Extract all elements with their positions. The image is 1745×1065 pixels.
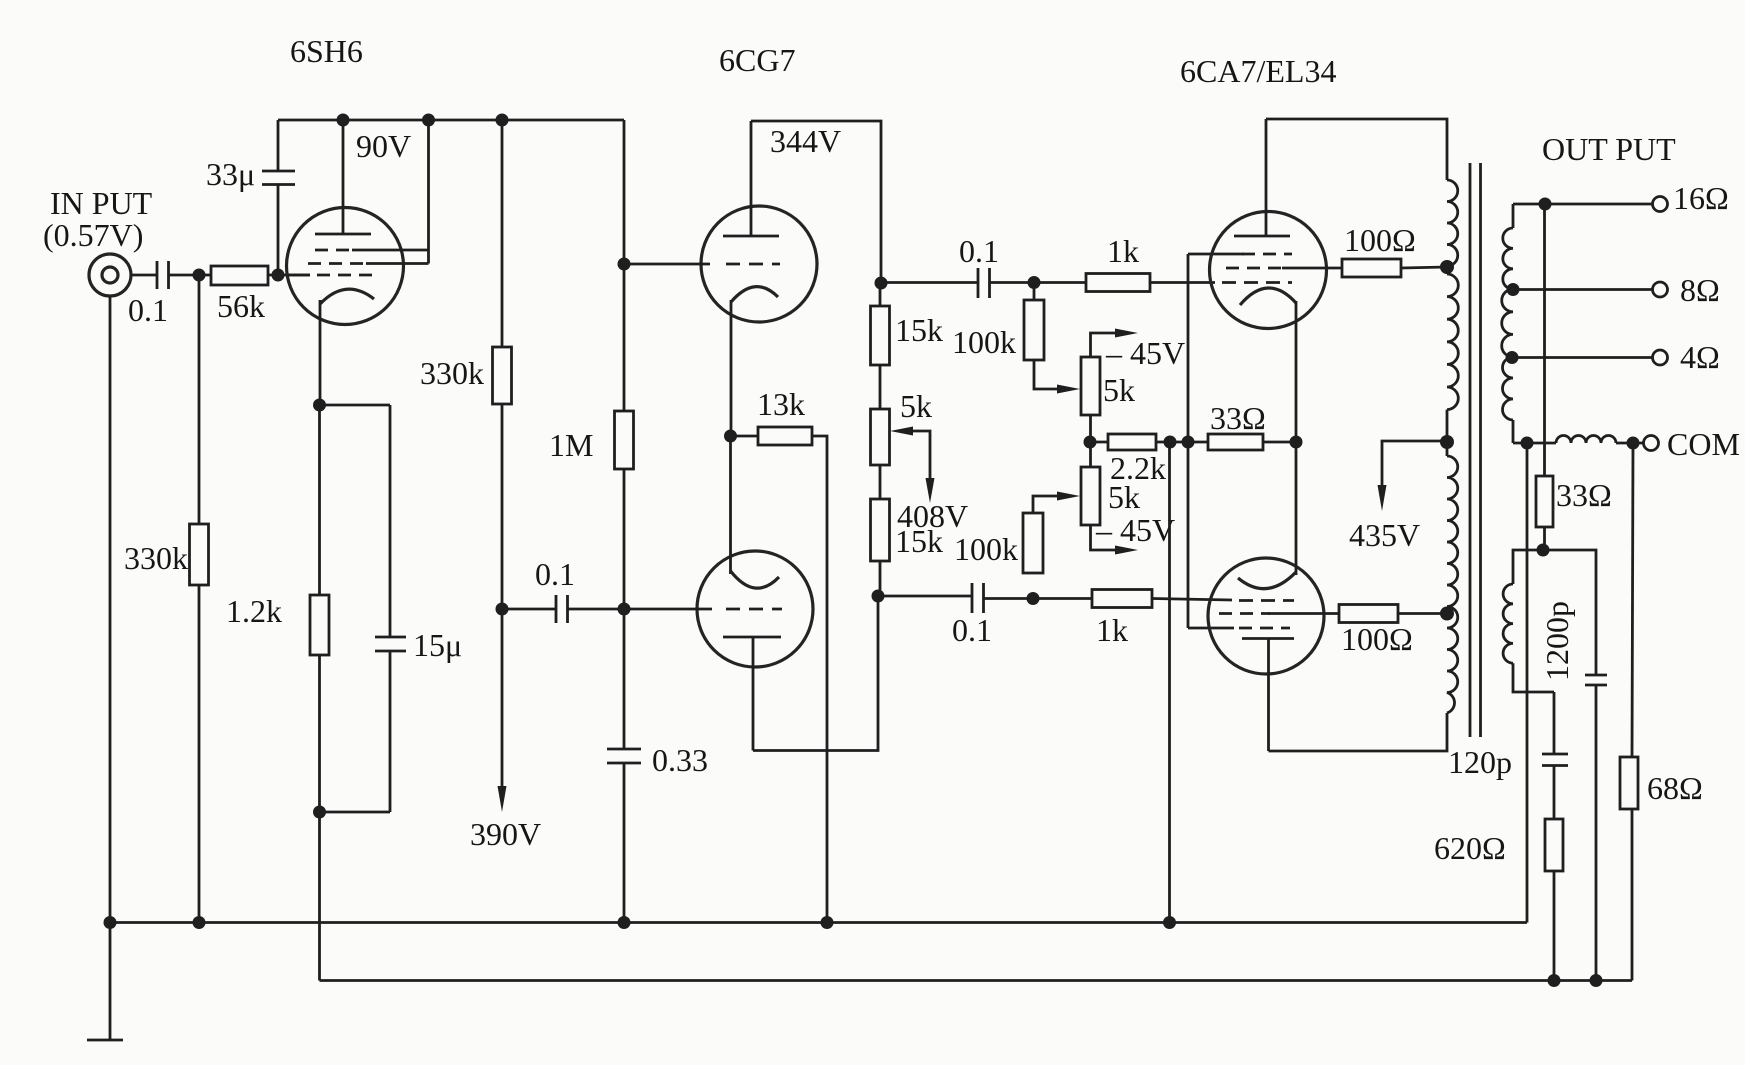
tube V1 6SH6 envelope: [287, 208, 404, 325]
node bus bias: [1163, 916, 1176, 929]
node primary centre tap: [1440, 435, 1454, 449]
svg-text:15k: 15k: [895, 312, 943, 348]
node primary UL tap lower: [1440, 607, 1454, 621]
inductor feedback coil: [1503, 550, 1554, 692]
V2b plate: [723, 637, 781, 751]
V3 control grid g1: [1222, 281, 1292, 284]
node V2b grid junction: [618, 603, 631, 616]
potentiometer 5k bias upper: [1081, 357, 1135, 415]
capacitor 15u: [320, 405, 463, 812]
V1 screen grid g2: [315, 249, 429, 252]
node B junction: [272, 269, 285, 282]
wire 100k upper to wiper: [1034, 360, 1066, 389]
potentiometer 5k splitter: [871, 365, 933, 465]
wire 15u bottom to node: [320, 811, 391, 814]
V4 control grid g1: [1239, 599, 1294, 602]
node upper grid junction: [1028, 276, 1041, 289]
capacitor 0.1 to lower EL34: [878, 583, 1033, 648]
svg-text:33μ: 33μ: [206, 156, 255, 192]
svg-text:100Ω: 100Ω: [1344, 222, 1416, 258]
svg-text:4Ω: 4Ω: [1680, 339, 1720, 375]
V1 plate: [315, 120, 371, 234]
node 68 ohm junction: [1627, 437, 1640, 450]
svg-text:620Ω: 620Ω: [1434, 830, 1506, 866]
capacitor 0.33: [607, 609, 708, 923]
node primary UL tap upper: [1440, 260, 1454, 274]
wire V4 plate to transformer bottom: [1269, 713, 1448, 751]
terminal 8 ohm: [1653, 272, 1720, 308]
svg-text:56k: 56k: [217, 288, 265, 324]
arrow wiper upper: [1057, 385, 1080, 394]
V3 plate: [1234, 119, 1290, 236]
inductor COM choke: [1556, 436, 1616, 443]
resistor 68 ohm: [1620, 443, 1703, 981]
svg-text:390V: 390V: [470, 816, 541, 852]
svg-text:33Ω: 33Ω: [1210, 400, 1266, 436]
wire suppressor tie line: [1188, 254, 1244, 628]
wire COM return to bus: [1526, 443, 1529, 923]
potentiometer 5k bias lower: [1081, 467, 1140, 525]
V4 cathode: [1238, 442, 1296, 589]
capacitor 33u: [206, 120, 295, 275]
terminal COM: [1644, 426, 1740, 462]
node cathode junction: [1290, 436, 1303, 449]
svg-text:15μ: 15μ: [413, 627, 462, 663]
svg-text:COM: COM: [1667, 426, 1740, 462]
node bus2 620 ohm: [1548, 974, 1561, 987]
V1 control grid g1: [288, 274, 372, 277]
node bias junction: [1084, 436, 1097, 449]
resistor 1k upper: [1034, 233, 1215, 292]
tube V2a envelope: [701, 206, 817, 322]
V2b grid: [624, 608, 782, 611]
wire jack to ground bus: [109, 296, 112, 923]
arrow 390V: [470, 609, 541, 852]
node 1.2k bottom junction: [313, 806, 326, 819]
wire 8 ohm tap: [1513, 288, 1652, 291]
tube V2b envelope: [697, 551, 813, 667]
node bus input: [104, 916, 117, 929]
wire secondary bottom to COM: [1513, 442, 1556, 445]
V1 grid g3: [308, 262, 429, 265]
node rail-330k junction: [496, 114, 509, 127]
resistor 1k lower: [1033, 590, 1232, 649]
svg-text:1k: 1k: [1107, 233, 1139, 269]
V4 screen g2: [1219, 612, 1339, 615]
wire top rail: [278, 119, 624, 122]
V3 suppressor g3: [1242, 253, 1292, 256]
svg-text:OUT PUT: OUT PUT: [1542, 131, 1676, 167]
svg-text:330k: 330k: [124, 540, 188, 576]
wire V2b plate loop to 15k junction: [753, 596, 878, 751]
node rail-plate junction: [337, 114, 350, 127]
wire feedback from 16 ohm: [1543, 204, 1546, 476]
V2b cathode: [731, 436, 780, 588]
svg-text:435V: 435V: [1349, 517, 1420, 553]
svg-text:(0.57V): (0.57V): [43, 217, 143, 253]
wire choke to COM terminal: [1616, 442, 1643, 445]
svg-text:1200p: 1200p: [1539, 601, 1575, 681]
wire node down to lower bus: [318, 812, 321, 981]
svg-text:5k: 5k: [1103, 372, 1135, 408]
tube V4 envelope: [1208, 558, 1324, 674]
svg-text:100Ω: 100Ω: [1341, 621, 1413, 657]
resistor 13k: [731, 386, 813, 445]
V3 cathode: [1240, 288, 1296, 442]
terminal 4 ohm: [1653, 339, 1720, 375]
node suppressor junction: [1182, 436, 1195, 449]
wire jack to C1: [131, 274, 156, 277]
svg-text:8Ω: 8Ω: [1680, 272, 1720, 308]
node V2 grid junction: [618, 258, 631, 271]
svg-text:0.1: 0.1: [535, 556, 575, 592]
node plate junction: [875, 277, 888, 290]
svg-text:0.1: 0.1: [959, 233, 999, 269]
svg-text:0.1: 0.1: [128, 292, 168, 328]
resistor 1M: [549, 264, 634, 609]
resistor 100k lower: [954, 513, 1043, 573]
V2a grid: [624, 263, 780, 266]
node A junction: [193, 269, 206, 282]
svg-text:1k: 1k: [1096, 612, 1128, 648]
svg-text:120p: 120p: [1448, 744, 1512, 780]
svg-text:33Ω: 33Ω: [1556, 477, 1612, 513]
resistor 620 ohm: [1434, 766, 1563, 981]
node 15k bottom junction: [872, 590, 885, 603]
wire bias return to bus: [1168, 442, 1171, 923]
svg-text:0.1: 0.1: [952, 612, 992, 648]
ground symbol: [87, 923, 123, 1041]
node feedback junction: [1537, 544, 1550, 557]
resistor 15k upper: [871, 283, 944, 365]
node bus 0.33: [618, 916, 631, 929]
V3 screen g2: [1226, 267, 1342, 270]
V2a plate: [723, 121, 779, 236]
transformer T1 secondary: [1502, 204, 1513, 443]
resistor 330k input: [124, 275, 209, 923]
svg-text:6SH6: 6SH6: [290, 33, 363, 69]
svg-text:6CA7/EL34: 6CA7/EL34: [1180, 53, 1336, 89]
resistor 33 ohm cathode: [1188, 400, 1296, 450]
input jack J1: [89, 254, 131, 296]
node bus2 1200p: [1590, 974, 1603, 987]
node cathode junction: [313, 399, 326, 412]
svg-text:IN PUT: IN PUT: [50, 185, 153, 221]
svg-text:6CG7: 6CG7: [719, 42, 795, 78]
resistor 100k upper: [952, 283, 1044, 361]
svg-text:1M: 1M: [549, 427, 593, 463]
wire ground bus lower: [320, 979, 1633, 982]
capacitor C1 0.1 input: [128, 261, 169, 328]
svg-text:68Ω: 68Ω: [1647, 770, 1703, 806]
wire rail corner down to V2 grid: [623, 120, 626, 264]
transformer T1 primary: [1447, 180, 1458, 713]
node 13k junction: [724, 430, 737, 443]
svg-text:344V: 344V: [770, 123, 841, 159]
arrow -45V upper: [1091, 329, 1186, 372]
wire ground bus upper: [110, 921, 1527, 924]
wire C1 to node A: [169, 274, 200, 277]
wire 344V loop: [751, 121, 881, 283]
node lower grid junction: [1027, 592, 1040, 605]
V4 suppressor g3: [1239, 627, 1290, 630]
wire 13k to bus: [812, 436, 827, 923]
resistor 15k lower: [871, 465, 944, 596]
svg-text:1.2k: 1.2k: [226, 593, 282, 629]
resistor 100 ohm lower screen: [1339, 605, 1447, 658]
V4 plate: [1242, 639, 1294, 752]
capacitor 0.1 to upper EL34: [881, 233, 1034, 298]
resistor 1.2k: [226, 405, 329, 812]
capacitor 120p: [1448, 692, 1568, 780]
wire screen riser to rail: [427, 120, 430, 264]
terminal 16 ohm: [1653, 180, 1729, 216]
resistor 33 ohm feedback: [1536, 476, 1612, 550]
arrow -45V lower: [1091, 512, 1176, 555]
capacitor 1200p: [1543, 550, 1607, 981]
node 4 ohm tap: [1506, 351, 1519, 364]
node bus 330k: [193, 916, 206, 929]
wire V3 plate to primary top: [1266, 119, 1447, 180]
svg-text:13k: 13k: [757, 386, 805, 422]
label IN PUT (0.57V): [43, 185, 153, 253]
node rail-screen junction: [422, 114, 435, 127]
tube V3 envelope: [1210, 212, 1327, 329]
svg-text:100k: 100k: [954, 531, 1018, 567]
capacitor C 0.1 interstage1: [502, 556, 624, 623]
transformer T1 core: [1470, 163, 1481, 737]
resistor 2.2k: [1090, 434, 1188, 486]
arrow wiper lower: [1033, 492, 1080, 574]
node COM return junction: [1521, 437, 1534, 450]
resistor 330k screen divider: [420, 120, 512, 609]
svg-text:330k: 330k: [420, 355, 484, 391]
svg-text:100k: 100k: [952, 324, 1016, 360]
svg-text:5k: 5k: [900, 388, 932, 424]
svg-text:16Ω: 16Ω: [1673, 180, 1729, 216]
resistor 56k: [199, 266, 268, 324]
svg-text:– 45V: – 45V: [1105, 335, 1185, 371]
node bus 13k: [821, 916, 834, 929]
V2a cathode: [731, 287, 778, 436]
arrow 435V: [1349, 441, 1447, 553]
arrow 5k wiper 408V: [890, 427, 968, 535]
svg-text:5k: 5k: [1108, 479, 1140, 515]
wire 56k to grid node B: [268, 274, 310, 277]
svg-text:0.33: 0.33: [652, 742, 708, 778]
node feedback takeoff: [1539, 198, 1552, 211]
node 390V junction: [496, 603, 509, 616]
node 2.2k right junction: [1164, 436, 1177, 449]
V1 cathode: [320, 289, 374, 405]
node 8 ohm tap: [1507, 283, 1520, 296]
svg-text:15k: 15k: [895, 523, 943, 559]
svg-text:– 45V: – 45V: [1095, 512, 1175, 548]
wire 16 ohm tap: [1513, 203, 1652, 206]
wire 4 ohm tap: [1513, 356, 1652, 359]
svg-text:90V: 90V: [356, 128, 411, 164]
resistor 100 ohm upper screen: [1342, 222, 1447, 277]
wire 5k upper to node: [1089, 415, 1092, 467]
